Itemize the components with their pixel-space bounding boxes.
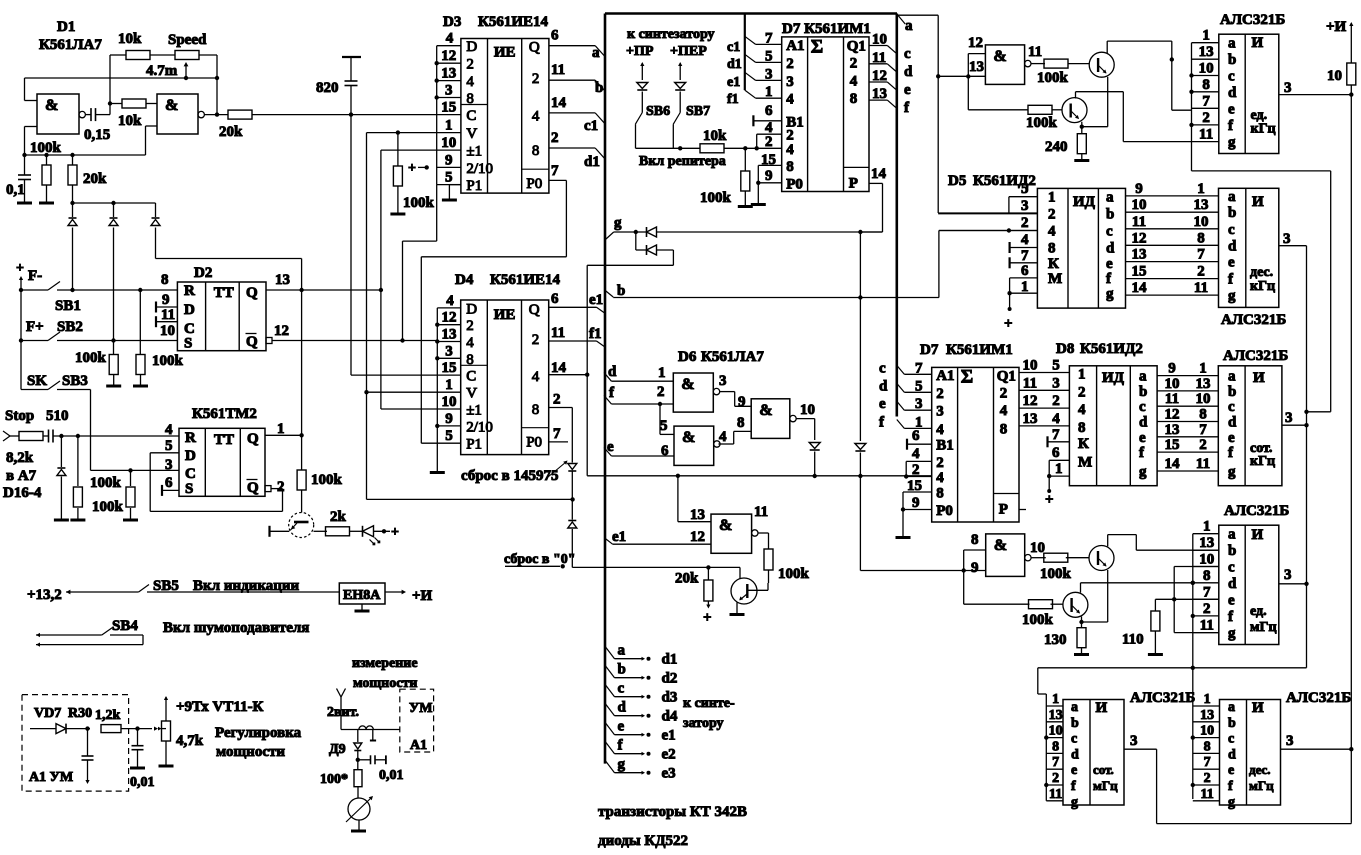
svg-text:мГц: мГц <box>1249 778 1274 793</box>
svg-text:e1: e1 <box>589 292 603 308</box>
svg-text:9: 9 <box>445 152 453 168</box>
svg-text:4: 4 <box>446 293 454 309</box>
svg-text:11: 11 <box>1023 375 1037 391</box>
svg-text:И: И <box>1253 370 1265 386</box>
svg-text:3: 3 <box>1052 375 1060 391</box>
svg-text:d: d <box>904 64 913 80</box>
svg-text:10: 10 <box>872 32 887 48</box>
svg-text:11: 11 <box>161 307 175 323</box>
svg-text:13: 13 <box>872 86 887 102</box>
svg-text:c: c <box>1071 732 1077 747</box>
svg-text:e: e <box>1228 255 1235 271</box>
svg-text:13: 13 <box>442 327 457 343</box>
svg-text:1: 1 <box>1052 692 1059 707</box>
svg-text:1,2k: 1,2k <box>95 708 121 723</box>
svg-text:100k: 100k <box>152 353 184 369</box>
svg-text:SK: SK <box>27 373 47 389</box>
svg-text:10: 10 <box>1030 540 1045 556</box>
svg-text:d3: d3 <box>662 690 678 706</box>
svg-text:2вит.: 2вит. <box>327 705 359 720</box>
svg-text:TT: TT <box>214 432 234 448</box>
svg-text:g: g <box>1139 464 1147 480</box>
svg-text:+: + <box>703 610 712 626</box>
svg-text:11: 11 <box>1201 787 1214 802</box>
svg-text:11: 11 <box>1165 391 1179 407</box>
svg-text:АЛС321Б: АЛС321Б <box>1223 348 1288 364</box>
svg-text:10: 10 <box>442 394 457 410</box>
svg-text:g: g <box>1228 626 1236 642</box>
svg-text:4.7m: 4.7m <box>146 63 178 79</box>
svg-text:a: a <box>1228 369 1236 385</box>
svg-text:13: 13 <box>1194 197 1209 213</box>
svg-text:c: c <box>1228 222 1235 238</box>
svg-text:d: d <box>1139 415 1148 431</box>
svg-text:20k: 20k <box>83 171 107 187</box>
svg-text:1: 1 <box>445 118 453 134</box>
svg-text:2: 2 <box>551 130 559 146</box>
svg-text:1: 1 <box>765 84 773 100</box>
svg-text:P0: P0 <box>526 176 542 192</box>
svg-text:А1 УМ: А1 УМ <box>29 770 73 785</box>
svg-text:D8: D8 <box>1056 341 1074 357</box>
svg-text:g: g <box>1228 795 1235 810</box>
svg-text:g: g <box>618 757 626 773</box>
svg-text:5: 5 <box>660 418 668 434</box>
svg-text:И: И <box>1252 700 1264 716</box>
svg-text:100k: 100k <box>1040 566 1072 582</box>
svg-text:100k: 100k <box>30 140 62 156</box>
svg-text:к синтезатору: к синтезатору <box>627 27 715 42</box>
svg-text:D5: D5 <box>948 173 966 189</box>
svg-text:b: b <box>1139 384 1147 400</box>
svg-text:d: d <box>608 364 617 380</box>
svg-text:7: 7 <box>1199 422 1207 438</box>
svg-text:Q: Q <box>529 302 540 318</box>
svg-text:10k: 10k <box>703 128 727 144</box>
svg-text:SB3: SB3 <box>62 373 88 389</box>
svg-text:D2: D2 <box>194 265 212 281</box>
svg-text:8: 8 <box>1052 739 1059 754</box>
svg-text:измерение: измерение <box>352 656 418 671</box>
svg-text:e: e <box>1228 101 1235 117</box>
svg-text:g: g <box>1228 135 1236 151</box>
svg-text:1: 1 <box>445 377 453 393</box>
svg-text:К561ИД2: К561ИД2 <box>1080 341 1143 357</box>
svg-text:ИД: ИД <box>1073 194 1096 210</box>
svg-text:6: 6 <box>912 428 920 444</box>
svg-text:d: d <box>1106 241 1115 257</box>
svg-text:D: D <box>185 448 196 464</box>
svg-text:d: d <box>1228 238 1237 254</box>
svg-text:Вкл шумоподавителя: Вкл шумоподавителя <box>163 620 309 636</box>
svg-text:c: c <box>904 46 911 62</box>
svg-text:4: 4 <box>936 470 944 486</box>
svg-text:e: e <box>879 396 886 412</box>
svg-text:f1: f1 <box>727 92 739 107</box>
svg-text:0,01: 0,01 <box>379 768 404 783</box>
svg-text:100k: 100k <box>1026 115 1058 131</box>
svg-text:13: 13 <box>690 507 705 523</box>
svg-text:11: 11 <box>1196 456 1210 472</box>
svg-text:D7: D7 <box>920 342 939 358</box>
svg-text:a: a <box>905 18 913 34</box>
svg-text:1: 1 <box>1055 461 1063 477</box>
svg-text:14: 14 <box>551 360 567 376</box>
svg-text:К: К <box>1048 256 1059 272</box>
svg-text:10: 10 <box>1023 358 1038 374</box>
svg-text:4: 4 <box>850 73 858 89</box>
svg-text:2: 2 <box>850 55 858 71</box>
svg-text:d: d <box>1071 747 1079 762</box>
svg-text:c: c <box>1106 224 1113 240</box>
svg-text:10: 10 <box>1165 376 1180 392</box>
svg-text:VD7: VD7 <box>34 706 61 721</box>
svg-text:D: D <box>184 302 195 318</box>
svg-text:4: 4 <box>466 335 474 351</box>
svg-text:2: 2 <box>1204 771 1211 786</box>
svg-text:100k: 100k <box>1022 612 1054 628</box>
svg-text:кГц: кГц <box>1250 454 1275 469</box>
svg-text:S: S <box>185 481 193 497</box>
svg-text:&: & <box>993 48 1006 65</box>
svg-text:e: e <box>1106 256 1113 272</box>
svg-text:Р: Р <box>849 175 858 191</box>
svg-text:10: 10 <box>1049 724 1063 739</box>
svg-text:4: 4 <box>912 446 920 462</box>
svg-text:15: 15 <box>1132 264 1147 280</box>
svg-text:8: 8 <box>1204 739 1211 754</box>
svg-text:Q: Q <box>247 480 259 496</box>
svg-text:Вкл репитера: Вкл репитера <box>639 154 726 169</box>
svg-text:6: 6 <box>661 443 669 459</box>
svg-text:И: И <box>1252 35 1264 51</box>
svg-text:d: d <box>1228 415 1237 431</box>
svg-text:d2: d2 <box>662 671 678 687</box>
svg-text:14: 14 <box>551 95 567 111</box>
svg-text:+И: +И <box>1326 19 1347 35</box>
svg-text:0,01: 0,01 <box>130 775 155 790</box>
svg-text:1: 1 <box>1202 28 1210 44</box>
svg-text:3: 3 <box>1284 80 1292 96</box>
svg-text:1: 1 <box>1021 279 1029 295</box>
svg-text:4: 4 <box>1052 411 1060 427</box>
svg-text:Р0: Р0 <box>936 503 953 519</box>
svg-text:a: a <box>1139 369 1147 385</box>
svg-text:SB4: SB4 <box>112 618 138 634</box>
svg-text:2/10: 2/10 <box>466 419 493 435</box>
svg-text:a: a <box>592 45 600 61</box>
svg-text:И: И <box>1096 700 1108 716</box>
svg-text:ЕН8А: ЕН8А <box>343 588 381 603</box>
svg-text:ИЕ: ИЕ <box>494 307 516 323</box>
svg-text:e: e <box>1228 763 1234 778</box>
svg-text:4: 4 <box>1000 403 1008 419</box>
svg-text:2: 2 <box>657 384 665 400</box>
svg-text:D1: D1 <box>57 19 75 35</box>
svg-text:2: 2 <box>1199 437 1207 453</box>
svg-text:затору: затору <box>683 716 724 731</box>
svg-text:И: И <box>1252 194 1264 210</box>
svg-text:SB6: SB6 <box>646 104 670 119</box>
svg-text:e: e <box>607 439 614 455</box>
svg-text:4: 4 <box>719 429 727 445</box>
svg-text:2: 2 <box>1197 264 1205 280</box>
svg-text:13: 13 <box>1200 708 1214 723</box>
svg-text:e: e <box>1228 592 1235 608</box>
svg-text:a: a <box>1228 189 1236 205</box>
svg-text:c: c <box>1228 732 1234 747</box>
svg-text:4: 4 <box>786 142 794 158</box>
svg-text:8: 8 <box>1203 568 1211 584</box>
svg-text:9: 9 <box>1168 361 1176 377</box>
svg-text:2: 2 <box>1078 384 1086 400</box>
svg-text:15: 15 <box>442 360 457 376</box>
svg-text:b: b <box>1071 716 1079 731</box>
svg-text:АЛС321Б: АЛС321Б <box>1220 12 1285 28</box>
svg-text:3: 3 <box>1283 231 1291 247</box>
svg-text:R: R <box>184 283 195 299</box>
svg-text:5: 5 <box>765 48 773 64</box>
svg-text:SB1: SB1 <box>55 298 81 314</box>
svg-text:3: 3 <box>915 396 923 412</box>
svg-text:2: 2 <box>466 57 474 73</box>
svg-text:&: & <box>681 376 694 393</box>
svg-text:А1: А1 <box>786 38 804 54</box>
svg-text:SB2: SB2 <box>57 319 83 335</box>
svg-text:1: 1 <box>277 421 285 437</box>
svg-text:b: b <box>1228 384 1236 400</box>
svg-text:7: 7 <box>1202 93 1210 109</box>
svg-text:4,7k: 4,7k <box>176 733 204 749</box>
svg-text:c: c <box>879 360 886 376</box>
svg-text:12: 12 <box>441 48 456 64</box>
svg-text:13: 13 <box>1049 708 1063 723</box>
svg-text:0,1: 0,1 <box>6 182 25 198</box>
svg-text:К: К <box>1078 436 1089 452</box>
svg-text:+9Тх VT11-К: +9Тх VT11-К <box>176 699 264 715</box>
svg-text:2: 2 <box>1048 207 1056 223</box>
svg-text:V: V <box>466 126 477 142</box>
svg-text:510: 510 <box>46 408 69 424</box>
svg-text:6: 6 <box>765 103 773 119</box>
svg-text:f: f <box>1071 779 1076 794</box>
svg-text:7: 7 <box>915 360 923 376</box>
svg-text:&: & <box>682 429 695 446</box>
svg-text:100k: 100k <box>700 190 732 206</box>
svg-text:2: 2 <box>912 462 920 478</box>
svg-text:g: g <box>1228 464 1236 480</box>
svg-text:c: c <box>1228 560 1235 576</box>
svg-text:&: & <box>719 517 732 534</box>
svg-text:6: 6 <box>551 28 559 44</box>
svg-text:100k: 100k <box>403 195 435 211</box>
svg-text:g: g <box>1071 795 1078 810</box>
svg-text:10: 10 <box>800 402 815 418</box>
svg-text:2: 2 <box>466 318 474 334</box>
svg-text:13: 13 <box>1023 411 1038 427</box>
svg-text:М: М <box>1078 454 1092 470</box>
svg-text:P1: P1 <box>466 178 482 194</box>
svg-text:b: b <box>1228 716 1236 731</box>
svg-text:8: 8 <box>1000 421 1008 437</box>
svg-text:4: 4 <box>1021 232 1029 248</box>
svg-text:110: 110 <box>1122 632 1144 648</box>
svg-text:2: 2 <box>532 332 540 348</box>
svg-text:М: М <box>1048 271 1062 287</box>
svg-text:10: 10 <box>1199 61 1214 77</box>
svg-text:c: c <box>1228 399 1235 415</box>
svg-text:Σ: Σ <box>811 36 823 57</box>
svg-text:мощности: мощности <box>216 744 285 760</box>
svg-text:10: 10 <box>1200 724 1214 739</box>
svg-text:13: 13 <box>275 272 290 288</box>
svg-text:4: 4 <box>532 369 540 385</box>
svg-text:Регулировка: Регулировка <box>215 725 302 741</box>
svg-text:8: 8 <box>532 143 540 159</box>
svg-text:8: 8 <box>1197 230 1205 246</box>
svg-text:F-: F- <box>28 268 42 284</box>
svg-text:кГц: кГц <box>1251 122 1276 137</box>
svg-text:9: 9 <box>1135 181 1143 197</box>
svg-text:7: 7 <box>1197 247 1205 263</box>
svg-text:11: 11 <box>551 62 565 78</box>
svg-text:13: 13 <box>1165 422 1180 438</box>
svg-text:11: 11 <box>754 504 768 520</box>
svg-text:10: 10 <box>1194 214 1209 230</box>
svg-text:g: g <box>614 215 622 231</box>
svg-text:D6: D6 <box>678 349 697 365</box>
svg-text:АЛС321Б: АЛС321Б <box>1286 690 1351 706</box>
svg-text:R30: R30 <box>68 706 92 721</box>
svg-text:g: g <box>1106 286 1114 302</box>
svg-text:В1: В1 <box>936 438 954 454</box>
svg-text:13: 13 <box>1132 247 1147 263</box>
svg-text:7: 7 <box>553 426 561 442</box>
svg-text:c: c <box>618 681 625 697</box>
svg-text:13: 13 <box>1196 376 1211 392</box>
svg-text:4: 4 <box>446 31 454 47</box>
svg-text:g: g <box>1228 288 1236 304</box>
svg-text:±1: ±1 <box>466 403 482 419</box>
svg-text:9: 9 <box>738 394 746 410</box>
svg-text:12: 12 <box>1165 407 1180 423</box>
svg-text:F+: F+ <box>26 319 44 335</box>
svg-text:7: 7 <box>765 30 773 46</box>
svg-text:8: 8 <box>1199 407 1207 423</box>
svg-text:АЛС321Б: АЛС321Б <box>1221 312 1286 328</box>
svg-text:130: 130 <box>1044 632 1067 648</box>
svg-text:4: 4 <box>936 422 944 438</box>
svg-text:b: b <box>1106 207 1114 223</box>
svg-text:+И: +И <box>412 588 433 604</box>
svg-text:3: 3 <box>719 373 727 389</box>
svg-text:8: 8 <box>1048 241 1056 257</box>
svg-text:ед.: ед. <box>1250 604 1267 619</box>
svg-text:d: d <box>1228 576 1237 592</box>
svg-text:14: 14 <box>1165 456 1181 472</box>
svg-text:кГц: кГц <box>1250 279 1275 294</box>
svg-text:3: 3 <box>936 404 944 420</box>
svg-text:Σ: Σ <box>961 366 973 387</box>
svg-text:C: C <box>466 108 476 124</box>
svg-text:e2: e2 <box>662 747 676 763</box>
svg-text:13: 13 <box>441 66 456 82</box>
svg-text:Stop: Stop <box>5 408 34 424</box>
svg-text:2: 2 <box>1202 110 1210 126</box>
svg-text:3: 3 <box>445 343 453 359</box>
svg-text:+ПЕР: +ПЕР <box>670 44 707 59</box>
svg-text:±1: ±1 <box>466 144 482 160</box>
svg-text:мощности: мощности <box>353 676 417 691</box>
svg-text:5: 5 <box>445 170 453 186</box>
svg-text:5: 5 <box>915 378 923 394</box>
svg-text:Д9: Д9 <box>329 742 346 757</box>
svg-text:100k: 100k <box>90 475 122 491</box>
svg-text:11: 11 <box>1200 618 1214 634</box>
svg-text:10: 10 <box>441 135 456 151</box>
svg-text:100k: 100k <box>778 566 810 582</box>
svg-text:8: 8 <box>1078 420 1086 436</box>
svg-text:сот.: сот. <box>1093 762 1114 777</box>
svg-text:мГц: мГц <box>1250 620 1277 635</box>
svg-text:0,15: 0,15 <box>84 127 110 143</box>
svg-text:D: D <box>466 39 477 55</box>
svg-text:10: 10 <box>1196 391 1211 407</box>
svg-text:4: 4 <box>532 109 540 125</box>
svg-text:2: 2 <box>786 56 794 72</box>
svg-text:Р: Р <box>999 502 1008 518</box>
svg-text:8: 8 <box>737 415 745 431</box>
svg-text:2: 2 <box>936 455 944 471</box>
svg-text:a: a <box>1228 36 1236 52</box>
svg-text:12: 12 <box>872 68 887 84</box>
svg-text:дес.: дес. <box>1250 265 1273 280</box>
svg-text:e: e <box>1071 763 1077 778</box>
svg-text:d1: d1 <box>662 652 678 668</box>
svg-text:3: 3 <box>1286 733 1294 749</box>
svg-text:2: 2 <box>765 134 773 150</box>
svg-text:9: 9 <box>765 168 773 184</box>
svg-text:К561ЛА7: К561ЛА7 <box>701 349 764 365</box>
svg-text:6: 6 <box>165 475 173 491</box>
svg-text:4: 4 <box>466 74 474 90</box>
svg-text:9: 9 <box>162 292 170 308</box>
svg-text:d1: d1 <box>727 57 742 72</box>
svg-text:D16-4: D16-4 <box>3 485 42 501</box>
svg-text:11: 11 <box>1194 280 1208 296</box>
svg-text:d: d <box>879 378 888 394</box>
svg-text:C: C <box>466 369 476 385</box>
svg-text:сброс в 145975: сброс в 145975 <box>461 468 558 484</box>
svg-text:Q: Q <box>246 285 258 301</box>
svg-text:К561ЛА7: К561ЛА7 <box>39 37 102 53</box>
svg-text:6: 6 <box>1021 263 1029 279</box>
svg-text:8: 8 <box>786 159 794 175</box>
svg-text:К561ИЕ14: К561ИЕ14 <box>478 14 549 30</box>
svg-text:8: 8 <box>936 486 944 502</box>
svg-text:100*: 100* <box>320 772 348 787</box>
svg-text:D4: D4 <box>455 272 474 288</box>
svg-text:дес.: дес. <box>1249 762 1271 777</box>
svg-text:13: 13 <box>1199 44 1214 60</box>
svg-text:10k: 10k <box>118 31 142 47</box>
svg-text:7: 7 <box>551 163 559 179</box>
svg-text:3: 3 <box>1284 567 1292 583</box>
svg-text:4: 4 <box>1048 224 1056 240</box>
svg-text:АЛС321Б: АЛС321Б <box>1224 503 1289 519</box>
svg-text:1: 1 <box>1199 361 1207 377</box>
svg-text:ИД: ИД <box>1102 370 1125 386</box>
